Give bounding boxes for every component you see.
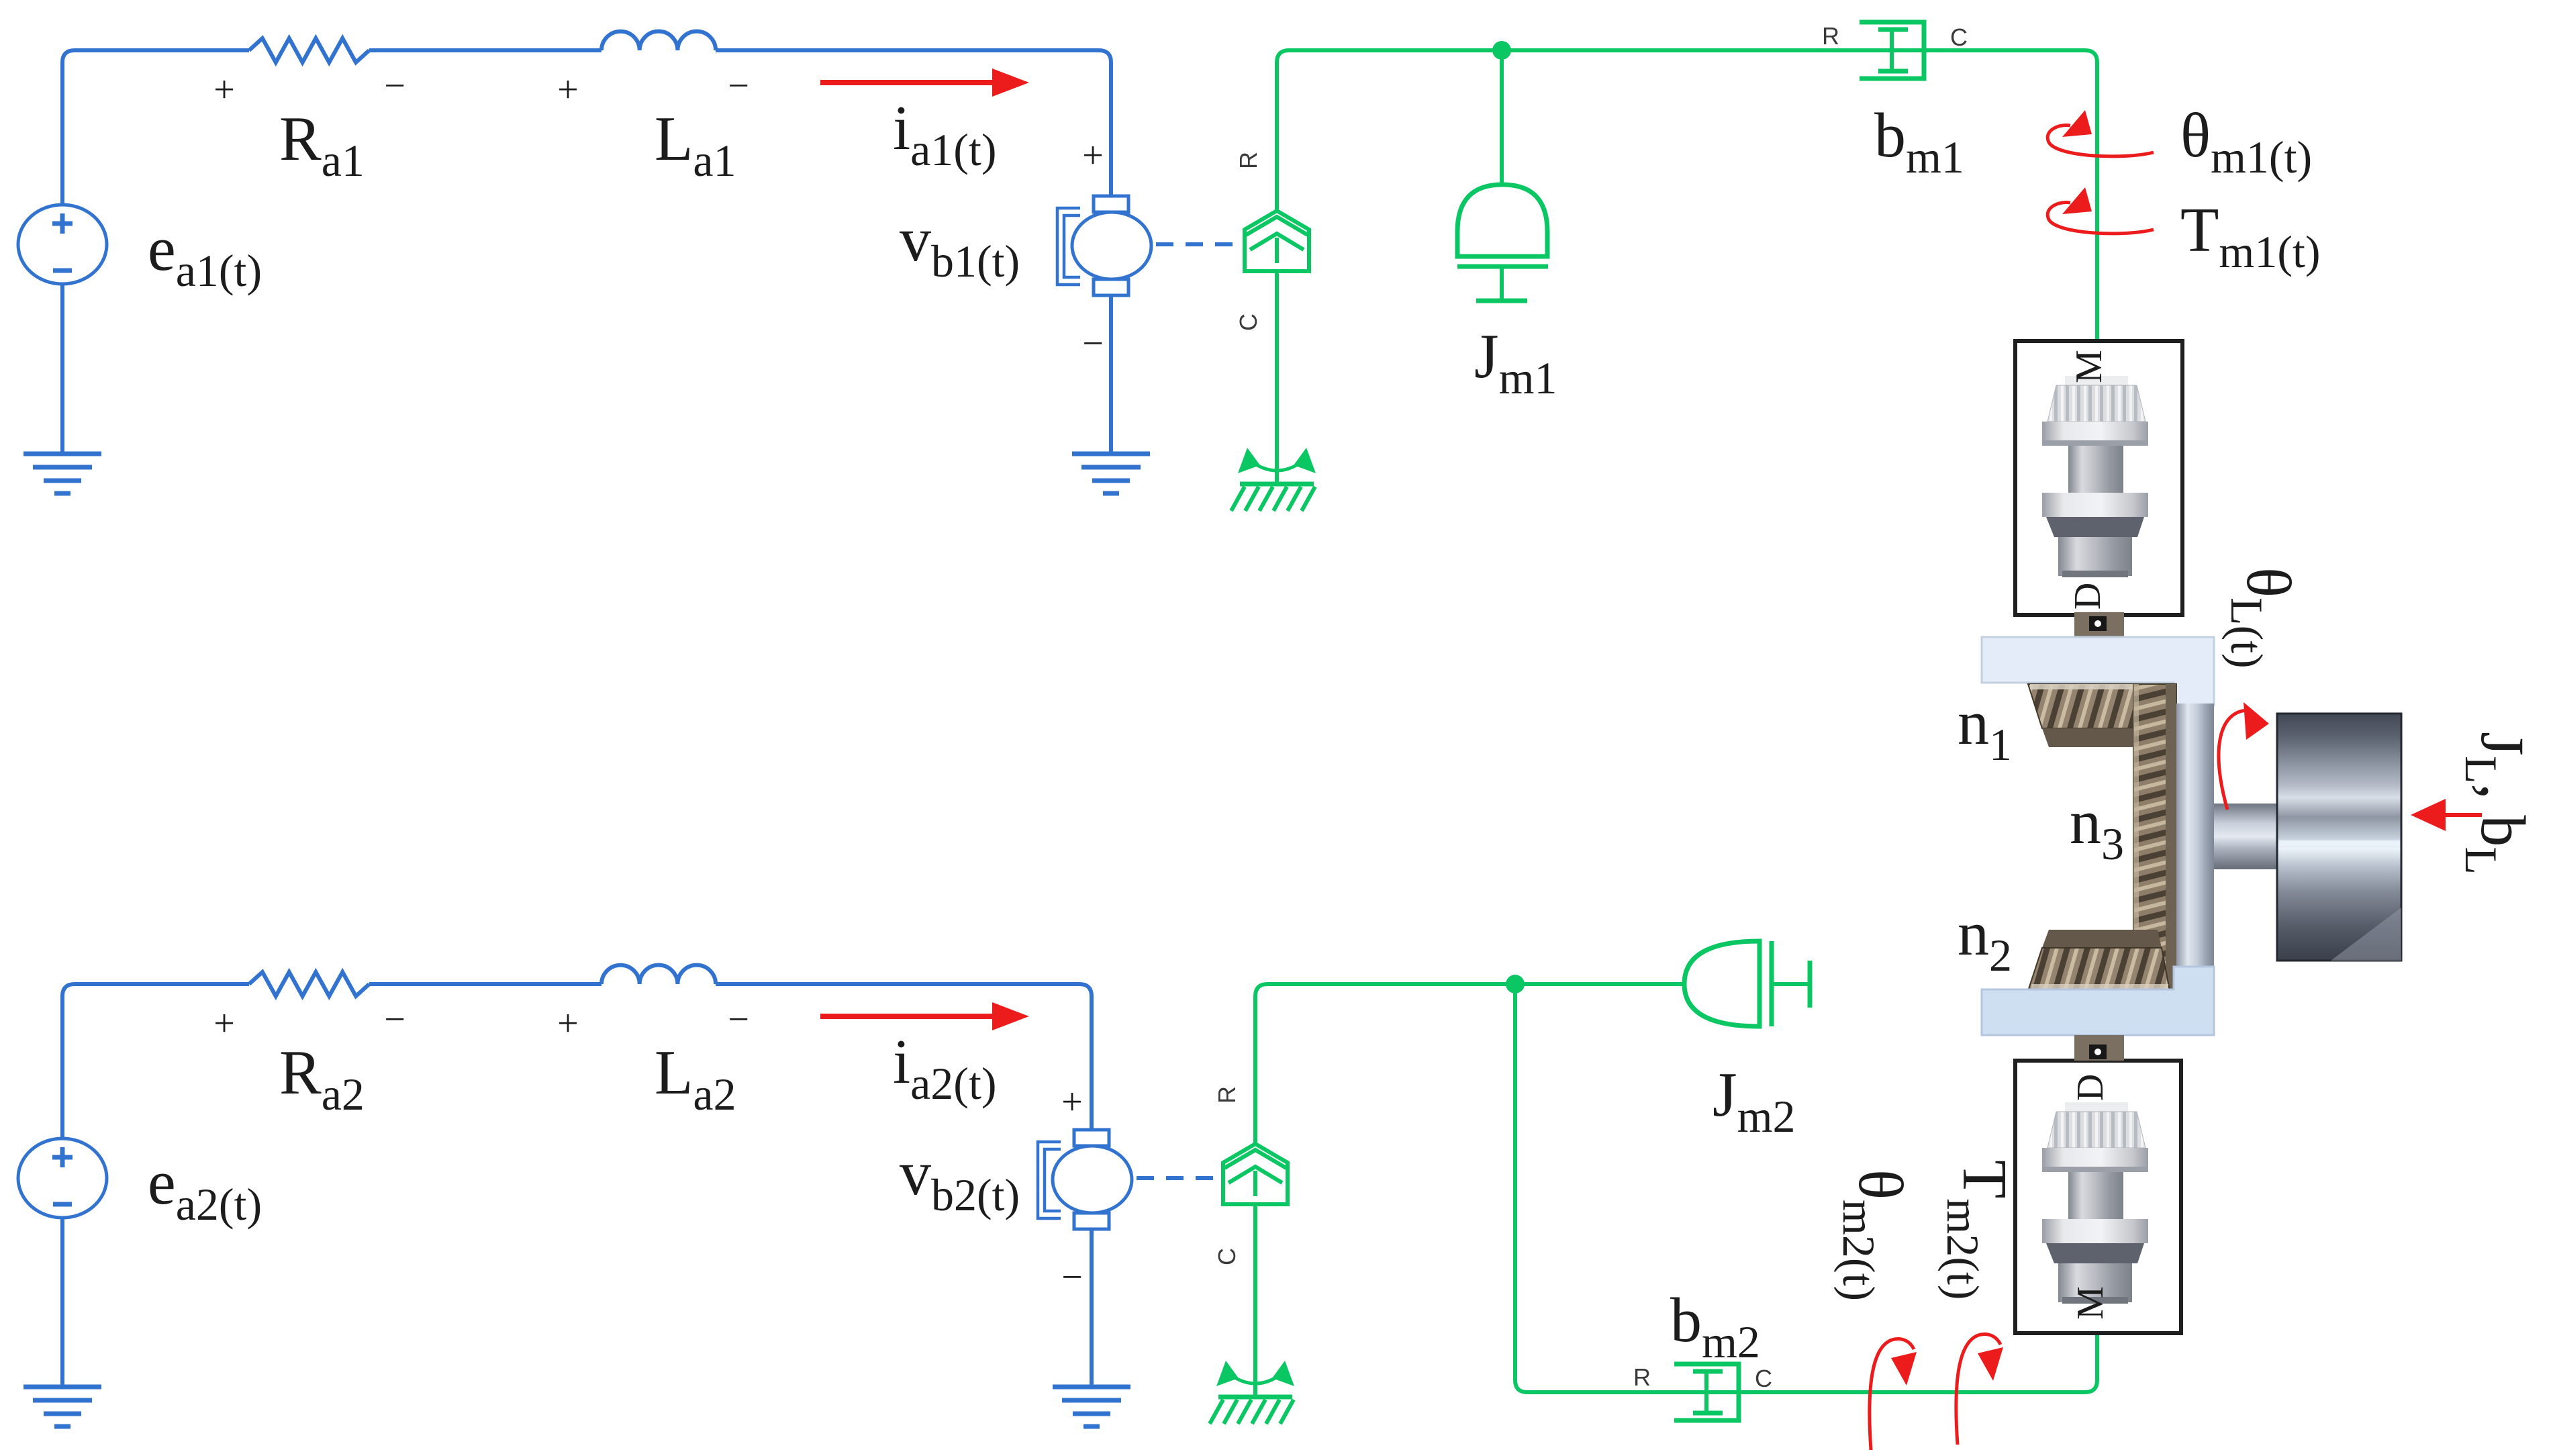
svg-text:D: D bbox=[2067, 583, 2109, 610]
dashed shaft link motor1 to spring1 bbox=[1156, 242, 1241, 246]
wire spring2 R port up to bottom green bus bbox=[1255, 984, 1685, 1144]
voltage source ea2(t) bbox=[18, 1138, 107, 1218]
svg-text:−: − bbox=[384, 65, 405, 107]
gearbox 2 pinion render bbox=[2042, 1102, 2148, 1304]
rotational reference (ground) 1 bbox=[1231, 448, 1316, 511]
rotational reference (ground) 2 bbox=[1210, 1361, 1294, 1424]
rotation arrow T m1 bbox=[2047, 187, 2154, 234]
wire resistor Ra2 to inductor La2 bbox=[369, 982, 601, 986]
red rotation arrow thetaL bbox=[2219, 702, 2269, 810]
wire source ea2 to ground bbox=[60, 1218, 64, 1387]
shaft frame to gearbox2 bbox=[2074, 1035, 2124, 1061]
ground G1 (source ea1) bbox=[23, 454, 101, 493]
rotational damper bm2 bbox=[1674, 1364, 1739, 1420]
svg-text:R: R bbox=[1822, 22, 1839, 50]
gearbox 1 pinion render bbox=[2042, 376, 2148, 577]
rotation arrow theta m2 bbox=[1870, 1339, 1914, 1450]
svg-text:C: C bbox=[1755, 1365, 1772, 1392]
svg-text:M: M bbox=[2068, 350, 2110, 383]
wire Jm1 stem bbox=[1500, 50, 1504, 185]
svg-text:+: + bbox=[557, 69, 579, 111]
gearbox 2 housing (motor 2, ports D/M) bbox=[2015, 1061, 2181, 1333]
svg-text:−: − bbox=[728, 65, 749, 107]
svg-text:−: − bbox=[728, 999, 749, 1040]
svg-text:−: − bbox=[1061, 1257, 1083, 1298]
output shaft to load bbox=[2214, 804, 2277, 869]
differential axle (vertical) bbox=[2176, 703, 2214, 971]
svg-text:M: M bbox=[2070, 1286, 2111, 1320]
resistor Ra2 bbox=[249, 972, 369, 996]
svg-text:+: + bbox=[213, 69, 235, 111]
wire inductor La1 to motor vb1 bbox=[716, 50, 1111, 196]
red load torque arrow bbox=[2411, 799, 2482, 831]
svg-text:+: + bbox=[1082, 135, 1104, 177]
dashed shaft link motor2 to spring2 bbox=[1137, 1176, 1220, 1180]
rotational spring (motor2 coupling) bbox=[1223, 1144, 1288, 1204]
svg-text:−: − bbox=[1082, 323, 1104, 365]
svg-text:R: R bbox=[1633, 1363, 1651, 1391]
inductor La1 bbox=[601, 32, 716, 50]
bevel gear n1 bbox=[2028, 684, 2170, 747]
rotation arrow T m2 bbox=[1956, 1334, 2000, 1445]
motor armature vb2(t) bbox=[1038, 1130, 1132, 1229]
red current arrow ia1 bbox=[820, 68, 1029, 97]
wire spring1 C port down bbox=[1275, 271, 1279, 484]
svg-text:R: R bbox=[1235, 152, 1262, 169]
wire spring1 R port up to green bus bbox=[1277, 50, 2097, 341]
red current arrow ia2 bbox=[820, 1002, 1029, 1030]
shaft gearbox1 to frame bbox=[2074, 612, 2124, 638]
svg-text:C: C bbox=[1213, 1248, 1241, 1265]
motor armature vb1(t) bbox=[1057, 196, 1151, 295]
ground G4 (motor 2) bbox=[1053, 1387, 1130, 1426]
ground G2 (motor 1) bbox=[1072, 454, 1150, 493]
svg-text:D: D bbox=[2070, 1074, 2111, 1101]
wire bottom-left bus bbox=[62, 984, 249, 1138]
bevel gear n2 bbox=[2028, 930, 2170, 991]
wire resistor Ra1 to inductor La1 bbox=[369, 48, 601, 52]
svg-text:−: − bbox=[384, 999, 405, 1040]
wire motor vb1 to ground bbox=[1109, 295, 1113, 454]
inertia Jm2 (rotated) bbox=[1684, 941, 1810, 1027]
inductor La2 bbox=[601, 965, 716, 984]
node junction bottom bus bbox=[1506, 975, 1525, 993]
wire junction down to damper bm2 bbox=[1515, 984, 2097, 1392]
svg-text:C: C bbox=[1235, 313, 1262, 331]
inertia Jm1 bbox=[1457, 185, 1548, 301]
svg-text:C: C bbox=[1950, 23, 1968, 51]
rotational spring (motor1 coupling) bbox=[1245, 211, 1309, 271]
svg-text:+: + bbox=[557, 1003, 579, 1045]
rotational damper bm1 bbox=[1860, 22, 1924, 79]
frame plate top (light blue) bbox=[1982, 637, 2214, 706]
rotation arrow theta m1 bbox=[2047, 110, 2154, 156]
voltage source ea1(t) bbox=[18, 205, 107, 284]
wire spring2 C port down bbox=[1253, 1204, 1257, 1397]
node junction top bus / Jm1 bbox=[1492, 41, 1511, 60]
ground G3 (source ea2) bbox=[23, 1387, 101, 1426]
svg-text:+: + bbox=[1061, 1081, 1083, 1123]
frame plate bottom (light blue) bbox=[1982, 967, 2214, 1035]
gearbox 1 housing (motor 1, ports M/D) bbox=[2015, 341, 2182, 615]
load inertia JL cylinder bbox=[2277, 714, 2401, 961]
crown gear n3 bbox=[2133, 684, 2176, 989]
svg-text:R: R bbox=[1213, 1086, 1241, 1104]
svg-text:+: + bbox=[213, 1003, 235, 1045]
wire source ea1 to ground bbox=[60, 284, 64, 454]
wire inductor La2 to motor vb2 bbox=[716, 984, 1092, 1130]
wire top-left bus: source to resistor bbox=[62, 50, 249, 205]
resistor Ra1 bbox=[249, 38, 369, 62]
wire motor vb2 to ground bbox=[1090, 1229, 1094, 1387]
